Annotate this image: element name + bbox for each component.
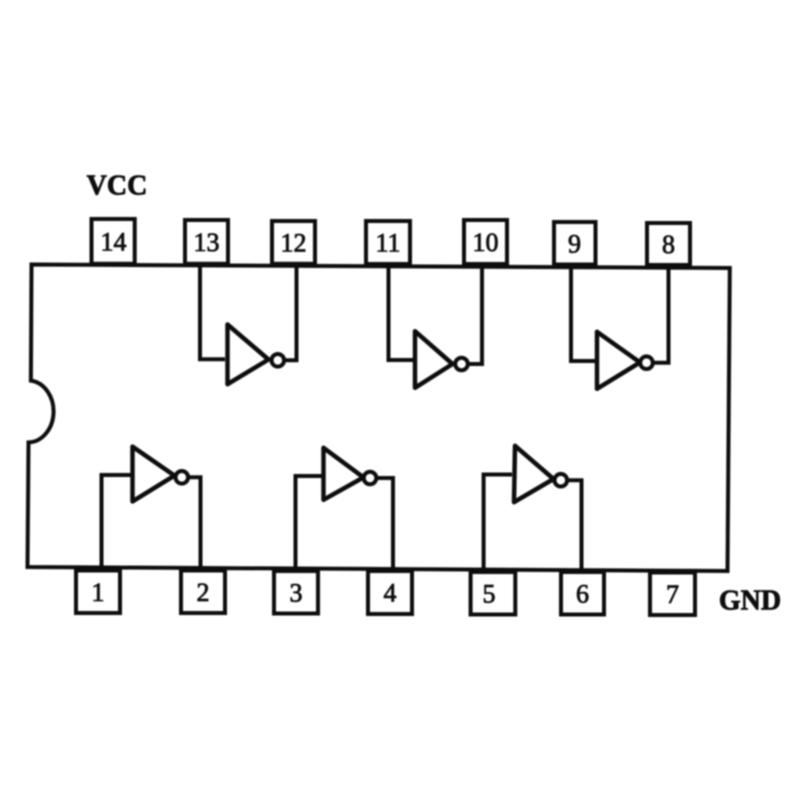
inverter U4 bubble xyxy=(176,471,189,484)
svg-text:8: 8 xyxy=(662,230,675,259)
svg-text:VCC: VCC xyxy=(87,171,148,202)
pin 5 box xyxy=(471,572,516,615)
pin 14 box xyxy=(92,219,135,264)
svg-text:14: 14 xyxy=(101,228,127,257)
svg-text:4: 4 xyxy=(384,579,397,608)
inverter U3 bubble xyxy=(640,356,653,369)
svg-text:13: 13 xyxy=(194,228,220,257)
inverter U6 bubble xyxy=(555,474,568,487)
pin 13 box xyxy=(185,220,228,264)
wire U5 output to pin4 xyxy=(376,478,393,569)
wire pin13 to U1 input xyxy=(200,266,225,359)
pin 10 box xyxy=(464,220,507,264)
pin 3 box xyxy=(274,571,318,614)
inverter U6 triangle xyxy=(514,446,554,502)
inverter U4 triangle xyxy=(133,447,175,502)
wire U3 output to pin8 xyxy=(653,268,669,363)
svg-text:6: 6 xyxy=(576,580,589,609)
wire U6 output to pin6 xyxy=(567,480,582,570)
pin 11 box xyxy=(366,221,410,264)
wire U2 output to pin10 xyxy=(468,267,482,364)
wire U1 output to pin12 xyxy=(285,267,297,360)
svg-text:11: 11 xyxy=(375,229,400,258)
wire pin1 to U4 input xyxy=(102,475,131,568)
svg-text:10: 10 xyxy=(473,228,499,257)
wire pin5 to U6 input xyxy=(484,475,512,571)
inverter U2 bubble xyxy=(455,358,468,371)
inverter U3 triangle xyxy=(597,332,640,389)
pin 9 box xyxy=(554,222,596,265)
wire U4 output to pin2 xyxy=(189,477,201,568)
wire pin9 to U3 input xyxy=(571,267,595,361)
pin 8 box xyxy=(647,223,690,265)
inverter U5 triangle xyxy=(324,448,364,500)
inverter U5 bubble xyxy=(364,472,377,485)
inverter U1 bubble xyxy=(272,354,285,367)
svg-text:1: 1 xyxy=(92,578,105,607)
svg-text:5: 5 xyxy=(483,580,496,609)
svg-text:7: 7 xyxy=(666,580,679,609)
pin 1 box xyxy=(76,571,120,614)
svg-text:2: 2 xyxy=(197,578,210,607)
pin 4 box xyxy=(368,571,412,614)
svg-text:3: 3 xyxy=(290,579,303,608)
wire pin3 to U5 input xyxy=(296,476,322,569)
inverter U2 triangle xyxy=(415,331,453,388)
pin 12 box xyxy=(272,221,315,264)
wire pin11 to U2 input xyxy=(389,267,414,360)
inverter U1 triangle xyxy=(228,325,269,385)
svg-text:GND: GND xyxy=(719,586,781,617)
pin 6 box xyxy=(561,572,604,615)
pin 2 box xyxy=(181,571,225,614)
svg-text:9: 9 xyxy=(568,230,581,259)
pin 7 box xyxy=(650,573,695,616)
IC body outline (DIP-14 package) xyxy=(28,265,730,572)
svg-text:12: 12 xyxy=(281,229,307,258)
